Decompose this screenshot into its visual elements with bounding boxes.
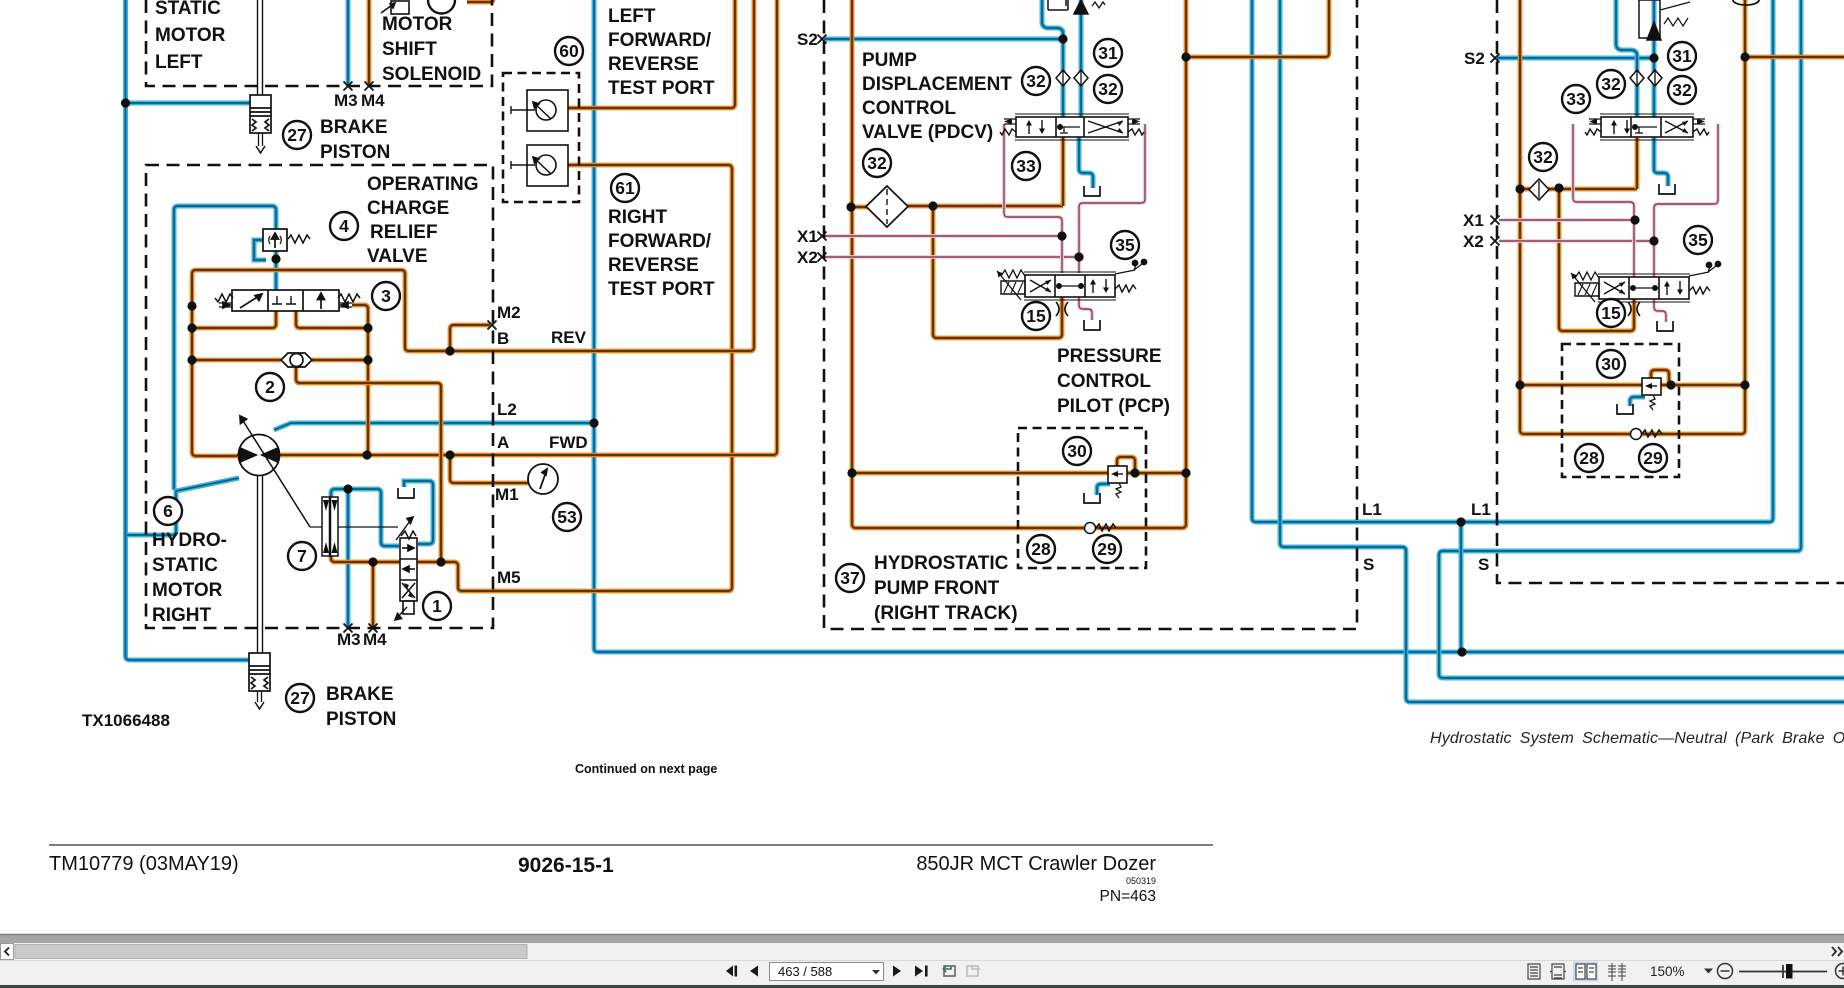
svg-text:CONTROL: CONTROL [862, 98, 956, 119]
wire left servo piston line B [1079, 0, 1084, 118]
wire valve 1 drain loop [404, 481, 433, 544]
tank PDCV right [1659, 184, 1675, 194]
wire PCP left relief drain [1097, 484, 1110, 495]
svg-text:PUMP FRONT: PUMP FRONT [874, 578, 1000, 599]
wire valve 1 right port [417, 560, 441, 565]
wire M4 test line [371, 562, 376, 628]
shuttle valve 2 [281, 353, 312, 367]
callout 35 [1111, 231, 1139, 259]
charge filter 32 left [866, 186, 908, 227]
footer rule [49, 844, 1213, 846]
test port check valve 61 [511, 145, 568, 186]
svg-text:35: 35 [1688, 230, 1708, 250]
svg-text:3: 3 [381, 286, 391, 306]
svg-text:33: 33 [1566, 89, 1586, 109]
zoom slider [1739, 971, 1827, 973]
charge pressure relief valve 30 left [1108, 466, 1127, 498]
box hydrostatic pump rear right [1497, 0, 1844, 583]
callout 27 [283, 121, 311, 149]
orifice 32 right a [1630, 70, 1644, 86]
test port check valve 60 [511, 90, 568, 131]
svg-text:L2: L2 [497, 400, 517, 419]
wire S suction left pump [1280, 0, 1844, 702]
svg-text:VALVE: VALVE [367, 246, 428, 267]
svg-text:OPERATING: OPERATING [367, 174, 479, 195]
orifice below valve 15 right [1628, 302, 1640, 316]
wire left test port 60 line [556, 0, 735, 108]
svg-text:Continued on next page: Continued on next page [575, 762, 717, 776]
callout 32 [1529, 143, 1557, 171]
svg-text:61: 61 [615, 178, 635, 198]
svg-text:BRAKE: BRAKE [326, 684, 394, 705]
callout 6 [154, 497, 182, 525]
wire flushing valve drain [331, 489, 399, 546]
svg-text:28: 28 [1031, 539, 1051, 559]
svg-text:MOTOR: MOTOR [152, 580, 223, 601]
callout 29 [1639, 444, 1667, 472]
wire X2 left pilot [824, 255, 1079, 259]
callout 30 [1063, 437, 1091, 465]
svg-text:150%: 150% [1650, 964, 1685, 979]
svg-text:RELIEF: RELIEF [370, 222, 438, 243]
wire S2 right pilot line [1497, 56, 1654, 61]
wire X1 left pilot [824, 234, 1062, 238]
svg-text:L1: L1 [1362, 500, 1382, 519]
svg-text:32: 32 [867, 153, 887, 173]
pump displacement control valve PDCV right [1585, 114, 1709, 140]
callout 27 [286, 684, 314, 712]
shift valve 3 [215, 290, 360, 311]
wire PCP left rail a [852, 471, 1108, 476]
svg-text:STATIC: STATIC [155, 0, 221, 19]
scrollbar right chevrons [1832, 947, 1842, 956]
svg-text:M1: M1 [495, 485, 519, 504]
svg-text:LEFT: LEFT [608, 6, 656, 27]
svg-text:60: 60 [559, 41, 579, 61]
svg-text:32: 32 [1672, 80, 1692, 100]
svg-text:32: 32 [1026, 71, 1046, 91]
wire M3 test line [346, 489, 351, 628]
svg-text:MOTOR: MOTOR [155, 25, 226, 46]
wire motor right case drain [127, 478, 239, 535]
wire X2 right pilot [1499, 239, 1654, 243]
wire right filter outlet [1548, 187, 1637, 192]
svg-text:15: 15 [1026, 306, 1046, 326]
tank PCP right [1617, 404, 1633, 414]
svg-text:15: 15 [1601, 303, 1621, 323]
pump circle right (cut) [1733, 0, 1759, 5]
toolbar prev page button [750, 966, 758, 977]
wire PDCV right supply riser [1635, 136, 1640, 189]
svg-text:30: 30 [1601, 354, 1621, 374]
svg-text:(RIGHT TRACK): (RIGHT TRACK) [874, 603, 1018, 624]
callout 15 [1022, 302, 1050, 330]
wire PDCV right tank drain [1654, 136, 1668, 186]
wire right servo piston line A [1616, 0, 1637, 118]
check orifice 29 left [1085, 523, 1117, 534]
zoom in button [1836, 964, 1844, 979]
svg-text:X1: X1 [1463, 211, 1484, 230]
box pressure control pilot right [1562, 344, 1679, 477]
wire brake piston left feed [126, 101, 251, 106]
wire relief valve 4 side loop [254, 240, 266, 260]
servo piston right (cut) [1639, 0, 1690, 40]
svg-text:TEST PORT: TEST PORT [608, 279, 715, 300]
svg-text:S2: S2 [797, 30, 818, 49]
svg-text:REV: REV [551, 328, 587, 347]
tank valve 15 right [1657, 321, 1673, 331]
wire M2 test tap [450, 325, 490, 351]
wire OCRV pilot [174, 206, 276, 490]
callout 32 [1597, 70, 1625, 98]
toolbar last page button [915, 966, 928, 977]
wire shuttle left line [192, 358, 281, 363]
charge filter 32 right [1529, 179, 1549, 200]
svg-text:S: S [1363, 555, 1374, 574]
svg-text:32: 32 [1601, 74, 1621, 94]
wire PDCV right envelope right [1654, 124, 1718, 277]
svg-text:A: A [497, 433, 509, 452]
svg-text:RIGHT: RIGHT [152, 605, 212, 626]
layout icon single [1528, 964, 1540, 979]
wire PCP left rail b [1127, 471, 1186, 476]
svg-text:VALVE (PDCV): VALVE (PDCV) [862, 122, 993, 143]
charge relief valve 4 [263, 229, 310, 251]
svg-text:S2: S2 [1464, 49, 1485, 68]
toolbar [0, 960, 1844, 985]
wire M1 test tap [450, 455, 528, 483]
svg-text:FORWARD/: FORWARD/ [608, 231, 712, 252]
layout icon two-up selected [1573, 962, 1598, 982]
svg-text:HYDRO-: HYDRO- [152, 530, 227, 551]
callout 31 [1668, 42, 1696, 70]
wire right filter inlet [1520, 187, 1530, 192]
box test ports 60 61 [503, 73, 579, 202]
box hydrostatic pump front 37 [824, 0, 1357, 629]
box hydrostatic motor left [146, 0, 492, 86]
callout 35 [1684, 226, 1712, 254]
svg-text:M4: M4 [363, 630, 387, 649]
svg-text:32: 32 [1533, 147, 1553, 167]
svg-text:PUMP: PUMP [862, 50, 917, 71]
wire PCP right rail a [1520, 383, 1642, 388]
svg-text:30: 30 [1067, 441, 1087, 461]
orifice below valve 15 left [1056, 302, 1068, 316]
wire valve 15 right drain [1654, 299, 1666, 322]
tank valve 15 left [1084, 320, 1100, 330]
wire PDCV right envelope left [1573, 124, 1634, 277]
wire valve 3 port b1 [192, 311, 276, 328]
callout 4 [330, 212, 358, 240]
callout 32 [1668, 76, 1696, 104]
wire PDCV left envelope right [1079, 124, 1145, 273]
pressure control valve 35 right [1571, 261, 1721, 302]
svg-text:463 / 588: 463 / 588 [778, 964, 832, 979]
svg-text:M3: M3 [337, 630, 361, 649]
orifice 32 left a [1056, 70, 1070, 86]
wire FWD / A line [281, 0, 777, 455]
wire X1 right pilot [1499, 218, 1635, 222]
wire valve 15 left loop [933, 206, 1062, 338]
pump displacement control valve PDCV left [1000, 114, 1144, 140]
svg-text:TEST PORT: TEST PORT [608, 78, 715, 99]
orifice 32 left b [1074, 70, 1088, 86]
servo piston left (cut) [1048, 0, 1105, 14]
svg-text:4: 4 [339, 216, 349, 236]
wire REV / B loop to valve 3 [192, 0, 754, 456]
wire PCP right rail b [1661, 383, 1745, 388]
svg-text:2: 2 [265, 377, 275, 397]
wire right pump top feed [1745, 55, 1844, 60]
callout 15 [1597, 299, 1625, 327]
layout icon continuous [1550, 964, 1566, 979]
svg-text:33: 33 [1016, 156, 1036, 176]
wire top edge stub [467, 0, 493, 2]
callout 32 [863, 149, 891, 177]
flushing shuttle 7 [322, 497, 338, 556]
svg-text:050319: 050319 [1126, 876, 1156, 886]
svg-text:REVERSE: REVERSE [608, 54, 699, 75]
svg-text:29: 29 [1643, 448, 1663, 468]
wire L2 case drain [274, 423, 594, 430]
wire left servo piston line A [1042, 0, 1063, 118]
svg-text:29: 29 [1097, 539, 1117, 559]
wire valve 15 right loop [1559, 188, 1634, 331]
motor shift solenoid symbol [381, 1, 409, 14]
wire PCP right pilot loop [1651, 370, 1669, 385]
svg-text:HYDROSTATIC: HYDROSTATIC [874, 553, 1009, 574]
wire PDCV left envelope left [1004, 124, 1062, 273]
svg-text:FORWARD/: FORWARD/ [608, 30, 712, 51]
horizontal scrollbar [0, 943, 1844, 960]
svg-text:S: S [1478, 555, 1489, 574]
callout 28 [1575, 444, 1603, 472]
zoom out button [1718, 964, 1733, 979]
svg-text:STATIC: STATIC [152, 555, 218, 576]
svg-text:M4: M4 [361, 91, 385, 110]
callout 53 [553, 503, 581, 531]
svg-text:PILOT (PCP): PILOT (PCP) [1057, 396, 1170, 417]
svg-text:SOLENOID: SOLENOID [382, 64, 481, 85]
box pressure control pilot left [1018, 428, 1146, 568]
svg-text:1: 1 [432, 596, 442, 616]
callout 7 [288, 542, 316, 570]
charge pressure relief valve 30 right [1642, 378, 1661, 410]
wire PDCV left tank drain [1079, 136, 1093, 188]
wire flushing to valve 1 [331, 556, 400, 562]
toolbar next page button [893, 966, 901, 977]
svg-text:L1: L1 [1471, 500, 1491, 519]
svg-text:DISPLACEMENT: DISPLACEMENT [862, 74, 1012, 95]
svg-text:31: 31 [1098, 43, 1118, 63]
callout 32 [1094, 75, 1122, 103]
wire charge return trunk [594, 0, 1844, 652]
hydrostatic motor 6 right [239, 416, 399, 527]
wire upper M4 shift line [367, 0, 372, 86]
svg-text:Hydrostatic System Schematic—N: Hydrostatic System Schematic—Neutral (Pa… [1430, 730, 1844, 747]
svg-text:28: 28 [1579, 448, 1599, 468]
wire PCP right relief drain [1630, 397, 1645, 406]
wire S2 left pilot line [824, 37, 1063, 42]
callout 28 [1027, 535, 1055, 563]
svg-text:MOTOR: MOTOR [382, 14, 453, 35]
svg-text:PISTON: PISTON [326, 709, 396, 730]
wire shuttle right line [312, 358, 368, 363]
wire L1 charge supply [1252, 0, 1773, 522]
layout icon two-up continuous [1608, 963, 1626, 981]
wire valve 3 right port riser [352, 305, 368, 455]
svg-text:7: 7 [297, 546, 307, 566]
svg-text:PN=463: PN=463 [1100, 888, 1156, 905]
svg-text:35: 35 [1115, 235, 1135, 255]
wire pump through line [237, 453, 281, 458]
tank PDCV left [1084, 186, 1100, 196]
wire valve 3 port b2 [296, 311, 368, 328]
svg-text:X1: X1 [797, 227, 818, 246]
svg-text:53: 53 [557, 507, 577, 527]
callout 32 [1022, 67, 1050, 95]
callout 1 [423, 592, 451, 620]
svg-text:X2: X2 [1463, 232, 1484, 251]
svg-text:32: 32 [1098, 79, 1118, 99]
svg-text:SHIFT: SHIFT [382, 39, 437, 60]
callout 60 [555, 37, 583, 65]
pressure control valve 35 left [997, 259, 1147, 300]
wire left pump outlet riser [1184, 0, 1189, 473]
svg-text:M2: M2 [497, 303, 521, 322]
motor shaft left [258, 0, 263, 95]
callout 29 [1093, 535, 1121, 563]
svg-text:CONTROL: CONTROL [1057, 371, 1151, 392]
svg-text:27: 27 [287, 125, 306, 145]
circled ref cut at top [428, 0, 455, 14]
next view icon [967, 966, 980, 977]
wire right servo piston line B [1652, 0, 1657, 118]
callout 3 [372, 282, 400, 310]
wire left filter inlet [851, 205, 869, 210]
wire PDCV left supply riser [1061, 136, 1066, 206]
wire right pump charge rail [1520, 0, 1745, 434]
svg-text:TM10779 (03MAY19): TM10779 (03MAY19) [49, 853, 239, 875]
brake piston 27 upper [250, 95, 271, 153]
svg-text:37: 37 [840, 568, 859, 588]
orifice 32 right b [1648, 70, 1662, 86]
wire left pump charge rail [852, 0, 1186, 528]
brake piston 27 lower [249, 653, 270, 709]
callout 61 [611, 174, 639, 202]
junction dots [121, 98, 130, 107]
callout 37 [836, 564, 864, 592]
callout 33 [1012, 152, 1040, 180]
svg-text:M5: M5 [497, 568, 521, 587]
callout 31 [1094, 39, 1122, 67]
svg-text:LEFT: LEFT [155, 52, 203, 73]
port markers [344, 82, 353, 91]
toolbar first page button [726, 966, 737, 977]
svg-text:X2: X2 [797, 248, 818, 267]
wire left pump top crossover [1186, 0, 1329, 57]
svg-text:27: 27 [290, 688, 309, 708]
check orifice 29 right [1631, 429, 1663, 440]
tank PCP left [1084, 493, 1100, 503]
svg-text:6: 6 [163, 501, 173, 521]
pressure gauge 53 [528, 464, 558, 494]
svg-text:M3: M3 [334, 91, 358, 110]
callout 33 [1562, 85, 1590, 113]
svg-text:PRESSURE: PRESSURE [1057, 346, 1162, 367]
viewer background strip [0, 934, 1844, 943]
svg-text:850JR MCT Crawler Dozer: 850JR MCT Crawler Dozer [916, 853, 1156, 875]
wire valve 15 left drain [1079, 297, 1092, 320]
scrollbar thumb [15, 945, 527, 959]
svg-text:31: 31 [1672, 46, 1692, 66]
wire left return line (motor left to brake pistons) [126, 0, 250, 660]
svg-text:FWD: FWD [549, 433, 588, 452]
box motor right and charge relief group [146, 165, 493, 628]
motor shaft right [258, 476, 263, 653]
wire shuttle outlet [296, 367, 441, 562]
svg-text:9026-15-1: 9026-15-1 [518, 854, 614, 877]
wire PCP left pilot loop [1117, 457, 1135, 473]
svg-text:RIGHT: RIGHT [608, 207, 668, 228]
previous view icon [943, 966, 955, 977]
tank valve 1 drain [398, 488, 414, 498]
wire relief valve 4 outlet [274, 251, 279, 290]
wire S suction right pump [1439, 0, 1844, 678]
svg-text:B: B [497, 329, 509, 348]
svg-text:PISTON: PISTON [320, 142, 390, 163]
callout 2 [256, 373, 284, 401]
wire left filter outlet [906, 204, 1063, 209]
svg-text:TX1066488: TX1066488 [82, 711, 170, 730]
svg-text:REVERSE: REVERSE [608, 255, 699, 276]
page number box [770, 963, 884, 981]
wire right test port 61 / M5 riser [441, 165, 732, 591]
svg-text:CHARGE: CHARGE [367, 198, 449, 219]
wire upper M3 shift line [346, 0, 351, 86]
svg-text:BRAKE: BRAKE [320, 117, 388, 138]
multi-function valve 1 [395, 517, 417, 620]
wire L1 to charge trunk [1459, 522, 1464, 652]
callout 30 [1597, 350, 1625, 378]
